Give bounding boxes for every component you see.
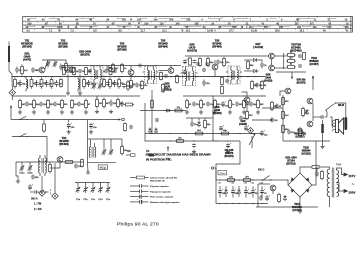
capacitor C23	[206, 102, 214, 107]
resistor R11	[127, 80, 135, 91]
wire mid supply rail	[185, 55, 266, 57]
wire jack link	[326, 110, 327, 117]
wire fm right	[116, 139, 122, 146]
wire filter top rail	[216, 179, 272, 181]
svg-text:300: 300	[345, 26, 350, 29]
legend electrolytic capacitor	[130, 199, 180, 204]
resistor R25b	[229, 99, 235, 110]
wire gang rail	[75, 182, 110, 184]
resistor R11c	[85, 99, 91, 110]
wire IF bottom 1	[140, 110, 186, 112]
switch SK1a	[19, 116, 27, 120]
capacitor C50	[106, 66, 114, 71]
wire audio top feed	[266, 55, 269, 57]
wire bridge bottom	[299, 197, 301, 207]
wire rail a mid link	[96, 96, 98, 99]
resistor R30	[286, 52, 296, 57]
transistor label TS13 out	[294, 130, 306, 139]
resistor R28b	[246, 110, 254, 120]
mains terminal 117V	[344, 172, 349, 176]
svg-text:Philips 90 AL 270: Philips 90 AL 270	[117, 222, 159, 228]
svg-text:17.7: 17.7	[229, 30, 234, 33]
resistor R40	[299, 127, 305, 138]
wire TS1 top rail	[42, 60, 66, 63]
resistor R71	[109, 67, 112, 76]
wire audio left rail	[282, 95, 284, 141]
capacitor C4	[35, 80, 43, 87]
capacitor C10	[113, 80, 120, 87]
transistor label TS2	[58, 40, 68, 49]
trimmer C73	[92, 83, 97, 90]
trimmer C7	[53, 61, 58, 68]
terminal fm block	[87, 172, 89, 174]
svg-text:SK-B: SK-B	[338, 104, 344, 107]
wire gnd psu	[299, 207, 301, 209]
electrolytic C37f	[244, 186, 252, 197]
diode GR7a	[251, 58, 258, 61]
svg-text:110: 110	[264, 26, 269, 29]
svg-text:Polyester capacitor: Polyester capacitor	[150, 185, 169, 188]
wire sw to bridge	[284, 180, 288, 185]
svg-text:R56 10k: R56 10k	[297, 80, 306, 82]
svg-text:(AC128): (AC128)	[292, 209, 301, 212]
capacitor C80	[298, 54, 302, 58]
resistor R64	[124, 103, 134, 106]
wire det link b	[252, 117, 272, 120]
resistor R73	[199, 57, 202, 66]
wire res to transformer	[320, 167, 329, 169]
svg-text:SK-A: SK-A	[31, 196, 38, 200]
wire bus to jack	[11, 77, 13, 89]
svg-text:(BF494): (BF494)	[59, 143, 68, 146]
arrow rail A end	[10, 105, 12, 120]
legend polyester capacitor	[130, 184, 169, 188]
ground G7b	[89, 130, 93, 134]
capacitor C28 coupling	[320, 115, 324, 119]
wire TS3 top drop	[130, 66, 132, 70]
resistor R23	[186, 99, 192, 110]
wire gang drop 2	[92, 183, 94, 187]
wire ts7d down	[246, 103, 248, 110]
resistor R34	[286, 64, 296, 69]
wire mid low rail1	[145, 133, 262, 135]
diode GR11	[224, 186, 227, 197]
svg-text:C1b: C1b	[83, 199, 88, 201]
resistor R70	[63, 67, 66, 76]
resistor R6e	[61, 99, 69, 110]
diode label GR7	[253, 43, 263, 49]
svg-text:230V: 230V	[349, 190, 356, 194]
resistor R1 ant	[21, 64, 29, 75]
test point TP4	[248, 128, 254, 134]
wire cap res drop	[316, 167, 318, 172]
ground G4c	[84, 110, 88, 114]
wire rail link	[43, 120, 45, 123]
diode label GR6	[163, 83, 172, 92]
svg-text:11.7: 11.7	[141, 30, 146, 33]
svg-text:100: 100	[144, 22, 149, 25]
wire det vert c	[212, 96, 214, 140]
wire filter bottom rail	[216, 203, 268, 205]
resistor R21	[251, 80, 259, 90]
wire mid vert1	[145, 103, 163, 141]
capacitor C9c	[66, 69, 73, 73]
wire det drop a	[191, 118, 193, 121]
test point TP2	[39, 190, 45, 196]
svg-text:1 : FM: 1 : FM	[34, 203, 41, 206]
resistor R16	[96, 98, 102, 109]
transformer S7	[39, 155, 47, 176]
part label TS12	[309, 57, 318, 66]
capacitor C9t	[78, 69, 85, 73]
capacitor C29b	[275, 104, 282, 109]
svg-text:160: 160	[194, 22, 199, 25]
diode GR10	[305, 109, 308, 115]
wire output node	[313, 116, 320, 118]
capacitor C41	[259, 195, 263, 200]
wire ts7 ts8 link	[271, 59, 273, 65]
capacitor C2 ant	[15, 67, 22, 74]
diode GR2	[164, 109, 171, 112]
wire ts7d up	[242, 92, 248, 97]
arrow rail A right	[118, 118, 121, 120]
resistor R80b	[60, 78, 63, 87]
part label C8-C30	[224, 149, 234, 158]
resistor R76	[124, 122, 127, 131]
capacitor C29c	[270, 118, 278, 123]
resistor R50	[278, 193, 281, 204]
box C15a	[218, 171, 227, 176]
svg-text:571: 571	[310, 22, 315, 25]
wire speaker feed	[330, 117, 336, 126]
capacitor C77	[202, 68, 206, 72]
resistor R15	[174, 107, 184, 112]
svg-text:(BA278): (BA278)	[224, 155, 233, 158]
diode GR16	[154, 128, 157, 134]
resistor R44	[49, 163, 52, 174]
wire elca1 up	[68, 120, 70, 123]
transistor TS11	[307, 121, 313, 127]
svg-text:117V: 117V	[349, 174, 356, 178]
ground G1	[18, 110, 22, 114]
diode label GR1	[23, 53, 31, 62]
switch SK-C	[262, 176, 284, 181]
wire TS2 top	[71, 66, 73, 68]
wire det drop c	[204, 118, 206, 119]
node det dots	[212, 95, 262, 140]
ground G12	[66, 91, 70, 95]
capacitor C33	[31, 175, 39, 180]
wire gang drop 0	[77, 183, 79, 187]
resistor R42b	[282, 124, 290, 134]
ground G11	[256, 110, 260, 114]
svg-text:(BF194): (BF194)	[22, 46, 31, 49]
electrolytic C36f	[231, 186, 239, 197]
resistor R39	[302, 107, 308, 118]
resistor R11b	[71, 99, 79, 110]
resistor R72	[103, 78, 106, 87]
transistor TS5	[168, 68, 174, 74]
svg-text:25.6: 25.6	[275, 30, 280, 33]
resistor R79	[221, 86, 224, 95]
wire bridge top	[300, 167, 311, 173]
capacitor C89	[225, 79, 229, 83]
capacitor C29	[287, 130, 295, 135]
svg-text:(OA90): (OA90)	[239, 123, 247, 126]
capacitor C21	[255, 83, 263, 88]
mains terminal 230V	[344, 189, 349, 193]
svg-text:102: 102	[137, 19, 142, 22]
transistor TS1	[39, 67, 45, 73]
resistor R14	[162, 83, 170, 93]
wire transformer bottom	[329, 197, 331, 207]
resistor R8t	[85, 67, 91, 76]
potentiometer R29 volume	[249, 133, 256, 148]
wire gang drop 4	[107, 183, 109, 187]
wire ts9 base	[280, 91, 285, 96]
wire agc rail	[62, 65, 181, 67]
capacitor C1 in	[31, 67, 39, 73]
electrolytic C38f	[251, 186, 258, 197]
electrolytic C27	[260, 129, 268, 136]
wire filter left rail	[215, 168, 217, 204]
wire reg drop	[272, 191, 274, 194]
resistor R22	[261, 80, 267, 90]
electrolytic C24	[221, 100, 229, 107]
ground G2	[32, 110, 36, 114]
electrolytic C26	[226, 142, 232, 148]
wire det mid	[244, 70, 251, 72]
transistor label TS6	[212, 40, 222, 49]
ground G8a	[16, 179, 20, 183]
transistor label TS4	[59, 137, 69, 146]
capacitor C5e	[53, 102, 61, 107]
svg-text:FM: FM	[146, 151, 149, 153]
svg-text:Polystyrene capacitor: Polystyrene capacitor	[150, 190, 171, 193]
trimmer gang C1e	[106, 186, 111, 193]
svg-text:E6/and MR 1/8.: E6/and MR 1/8.	[150, 181, 166, 183]
capacitor C84	[196, 62, 200, 66]
legend ceramic capacitor	[130, 195, 174, 199]
svg-text:Miniature electrolytic capacit: Miniature electrolytic capacitor	[150, 201, 180, 204]
wire to terminal	[87, 163, 90, 172]
arrow jack lower	[11, 96, 13, 100]
transistor TS7d	[244, 97, 250, 103]
trimmer C6	[46, 61, 51, 68]
svg-text:Carbon resistor 1/8 watt 5%: Carbon resistor 1/8 watt 5%	[150, 177, 177, 180]
wire mid det drop rail	[186, 117, 212, 119]
svg-text:160: 160	[297, 26, 302, 29]
mains transformer T1	[327, 165, 342, 198]
resistor R4	[40, 77, 48, 88]
resistor R3	[30, 77, 38, 88]
svg-text:(BF195): (BF195)	[117, 49, 126, 52]
resistor R75	[176, 75, 179, 84]
wire matrix left	[275, 55, 287, 57]
resistor R6c	[33, 99, 41, 110]
svg-text:(AC128): (AC128)	[301, 153, 310, 156]
wire audio bottom rail	[283, 140, 330, 142]
IF transformer S3	[89, 66, 105, 83]
resistor R81b	[81, 159, 84, 168]
resistor R7	[65, 61, 73, 72]
potentiometer R38 tone	[312, 75, 314, 90]
part label R56	[297, 80, 306, 85]
resistor R46	[226, 177, 236, 182]
svg-text:Plate ceramic, capacitor: Plate ceramic, capacitor	[150, 196, 174, 199]
transistor TS13 osc	[57, 157, 63, 163]
svg-text:IN POSITION FM.: IN POSITION FM.	[146, 157, 172, 161]
capacitor C86	[129, 125, 133, 129]
svg-text:M(1g): M(1g)	[100, 167, 106, 169]
svg-text:(AC187): (AC187)	[295, 136, 304, 139]
annotation arrow	[167, 146, 169, 152]
electrolytic C16	[67, 122, 75, 129]
svg-text:108: 108	[186, 19, 191, 22]
wire mid sub-rail	[183, 95, 266, 97]
capacitor C83	[164, 74, 168, 78]
trimmer gang C1a	[76, 186, 81, 193]
capacitor C18	[202, 80, 210, 87]
resistor R49	[321, 170, 324, 181]
wire det top	[244, 59, 251, 61]
wire trim drop1	[21, 162, 23, 165]
wire gang drop 3	[100, 183, 102, 187]
transistor TS2	[69, 67, 75, 73]
wire sub-rail left	[12, 95, 66, 97]
dial scale band segments	[27, 19, 348, 27]
svg-text:(BA278): (BA278)	[297, 82, 306, 85]
wire g12 drop	[67, 74, 69, 91]
svg-text:2 : AM: 2 : AM	[34, 208, 41, 211]
resistor R6d	[47, 99, 55, 110]
loudspeaker LS1	[333, 118, 344, 134]
rectifier label GR1-GR4	[285, 157, 297, 166]
wire TS1 collector	[45, 60, 55, 69]
wire terminal link	[214, 167, 216, 169]
ground G13	[78, 91, 82, 95]
tuning dial scale frame	[23, 16, 353, 32]
wire reg left	[257, 184, 259, 207]
resistor R63	[257, 99, 265, 110]
svg-text:(BYX10): (BYX10)	[286, 163, 295, 166]
capacitor C20	[260, 62, 267, 69]
electrolytic C42	[265, 194, 271, 201]
electrolytic C87	[183, 58, 189, 64]
antenna A1	[8, 42, 12, 77]
resistor R27	[220, 130, 230, 135]
svg-text:104: 104	[154, 19, 159, 22]
electrolytic C91	[244, 124, 250, 130]
resistor R46b	[121, 145, 129, 156]
wire agc to ts1	[61, 66, 63, 69]
capacitor C40	[315, 172, 319, 177]
node main bus junctions	[11, 76, 255, 77]
diode label GR2b	[79, 51, 91, 57]
resistor R17b	[117, 98, 125, 109]
capacitor C23b	[235, 102, 243, 107]
trimmer gang C1c	[91, 186, 96, 193]
svg-text:OA90: OA90	[265, 76, 272, 79]
electrolytic C17	[89, 122, 97, 129]
wire tuner top rail	[16, 161, 84, 163]
wire to speaker node	[325, 116, 327, 118]
wire bridge right	[312, 141, 316, 185]
capacitor C13	[135, 83, 143, 88]
resistor R65	[151, 99, 154, 109]
wire sec 117 tap	[337, 168, 344, 175]
ground G3b	[60, 110, 64, 114]
transistor label TS5	[158, 40, 168, 49]
capacitor C3	[18, 80, 26, 87]
ground G5b	[199, 110, 203, 114]
wire TS5 top	[170, 66, 172, 68]
capacitor C5	[45, 80, 53, 87]
transistor label TS3	[117, 43, 127, 52]
svg-text:120: 120	[160, 22, 165, 25]
resistor R78	[221, 77, 224, 86]
resistor R60	[112, 63, 120, 73]
node mid rail dots	[151, 133, 252, 142]
connector label SK-B	[338, 104, 344, 107]
wire det link a	[262, 107, 283, 109]
ground G6	[320, 145, 324, 149]
dial scale number speckle	[42, 18, 298, 31]
capacitor C22	[192, 102, 200, 107]
resistor R61	[204, 119, 212, 130]
svg-text:(BF494): (BF494)	[158, 46, 167, 49]
transformer S8	[89, 139, 96, 158]
svg-text:~: ~	[352, 182, 355, 188]
ground G14	[226, 150, 230, 154]
ground G5d	[228, 110, 232, 114]
electrolytic C90	[219, 124, 225, 130]
svg-text:1M: 1M	[274, 106, 277, 108]
resistor R8	[83, 77, 91, 88]
diode GR14	[197, 121, 200, 127]
test point TP3	[52, 193, 58, 199]
trimmer C30	[19, 165, 25, 175]
ground G4b	[70, 110, 74, 114]
svg-text:240: 240	[327, 26, 332, 29]
wire filter drop from above	[216, 141, 240, 180]
capacitor C8	[59, 64, 67, 71]
svg-text:SK-C: SK-C	[258, 168, 264, 172]
resistor R24	[200, 99, 206, 110]
transistor label TS14	[292, 203, 302, 212]
resistor R17	[103, 98, 111, 109]
wire matrix v1	[283, 53, 285, 69]
svg-text:12.1: 12.1	[162, 30, 167, 33]
wire TS3 emitter	[130, 75, 132, 79]
svg-text:(BF494): (BF494)	[212, 46, 221, 49]
svg-text:190: 190	[313, 26, 318, 29]
trimmer C36	[109, 149, 114, 156]
resistor R25	[214, 99, 222, 110]
trimmer gang C1d	[98, 186, 103, 193]
legend polystyrene capacitor	[130, 189, 171, 193]
connector BU1 aerial jack	[9, 89, 15, 95]
capacitor C51	[190, 121, 198, 126]
capacitor C85	[205, 62, 209, 66]
capacitor C5c	[25, 102, 33, 107]
resistor R48	[311, 166, 320, 169]
electrolytic C34	[28, 183, 34, 190]
svg-text:(A470): (A470)	[23, 59, 31, 62]
svg-text:C15a: C15a	[220, 173, 226, 175]
trimmer C31	[27, 165, 33, 175]
wire tuner left drop	[16, 162, 18, 179]
